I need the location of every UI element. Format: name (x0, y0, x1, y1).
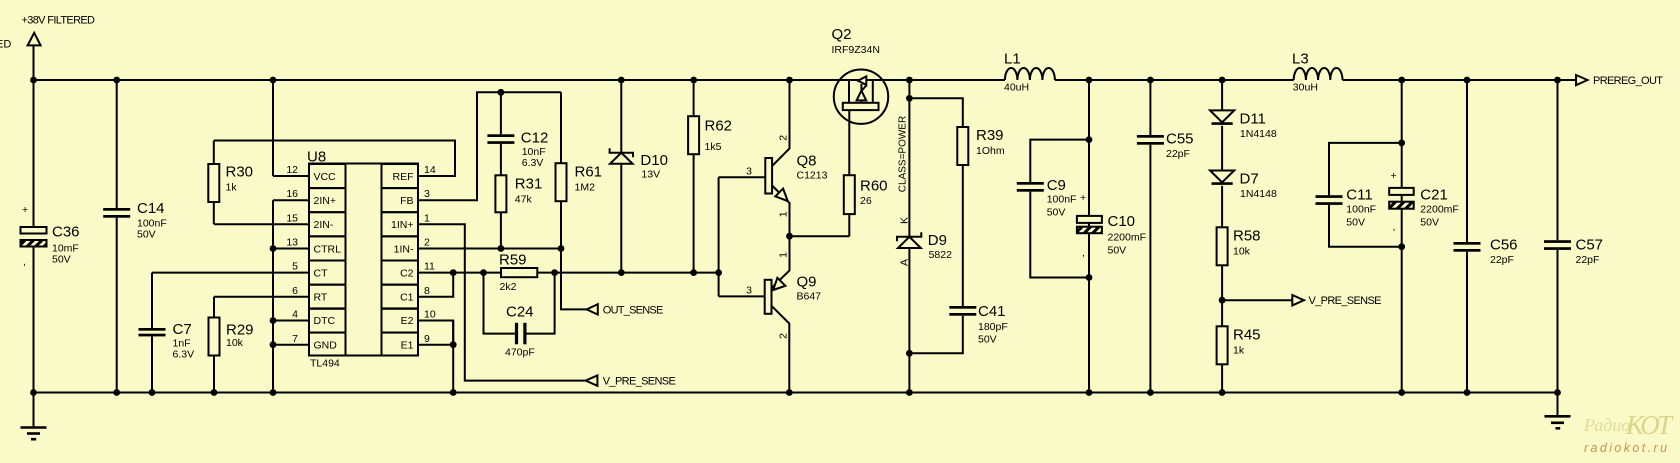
svg-text:C12: C12 (521, 130, 549, 147)
diode D11 1N4148 (1210, 80, 1277, 171)
svg-text:12: 12 (286, 164, 298, 176)
wire driver base column (718, 177, 720, 296)
resistor R58 (1217, 227, 1261, 326)
svg-text:CLASS=POWER: CLASS=POWER (898, 116, 909, 192)
svg-text:100nF: 100nF (1346, 204, 1376, 216)
svg-text:4: 4 (292, 309, 298, 321)
wire divider tap to arrow (1222, 299, 1292, 301)
junction C24 right on C2 row (551, 269, 558, 276)
svg-text:L3: L3 (1292, 51, 1309, 68)
svg-text:6.3V: 6.3V (522, 157, 544, 169)
svg-text:R39: R39 (976, 127, 1004, 144)
diode D9 5822 (897, 217, 952, 266)
node V_PRE_SENSE arrow (right) (1292, 295, 1304, 305)
svg-text:C21: C21 (1420, 187, 1448, 204)
svg-text:VCC: VCC (314, 171, 337, 183)
svg-text:2IN+: 2IN+ (314, 195, 336, 207)
svg-text:C55: C55 (1166, 131, 1194, 148)
capacitor C56 (1454, 80, 1518, 393)
svg-text:D9: D9 (928, 232, 947, 249)
capacitor C21 (1389, 170, 1459, 233)
svg-text:C41: C41 (978, 303, 1006, 320)
svg-text:1k5: 1k5 (705, 141, 722, 153)
svg-text:22pF: 22pF (1490, 254, 1514, 266)
transistor Q8 C1213 (719, 80, 828, 236)
svg-text:13V: 13V (641, 169, 660, 181)
svg-text:50V: 50V (1420, 217, 1439, 229)
svg-text:1k: 1k (226, 182, 238, 194)
svg-text:+: + (22, 204, 28, 216)
junction C1/C2 tie (450, 269, 457, 276)
svg-text:GND: GND (314, 339, 338, 351)
svg-text:10k: 10k (226, 337, 244, 349)
resistor R45 (1217, 326, 1261, 392)
svg-text:10k: 10k (1233, 246, 1251, 258)
svg-text:2k2: 2k2 (500, 281, 517, 293)
wire U8 ground column (2IN+ CTRL DTC GND) (272, 200, 274, 392)
junction C11 top tap (1398, 140, 1405, 147)
svg-text:A: A (899, 259, 911, 266)
wire REF to R30 top (214, 141, 455, 177)
svg-text:5: 5 (292, 261, 298, 273)
capacitor C9 (1017, 140, 1089, 278)
svg-text:Q2: Q2 (832, 26, 852, 43)
svg-text:,: , (1393, 221, 1396, 233)
wire FB riser (418, 92, 561, 200)
node PREREG_OUT arrow (1576, 75, 1588, 85)
svg-text:C36: C36 (52, 224, 80, 241)
svg-text:C56: C56 (1490, 237, 1518, 254)
svg-text:+: + (1080, 192, 1086, 204)
junction V_PRE_SENSE divider tap (1219, 297, 1226, 304)
svg-text:K: K (899, 217, 911, 224)
svg-text:Q8: Q8 (797, 153, 817, 170)
wire C11/C21 branch (1401, 80, 1403, 393)
capacitor C36 (21, 80, 80, 393)
svg-text:50V: 50V (137, 229, 156, 241)
capacitor C7 (139, 273, 195, 393)
svg-text:V_PRE_SENSE: V_PRE_SENSE (1309, 295, 1382, 307)
svg-text:CTRL: CTRL (314, 243, 342, 255)
svg-text:1N4148: 1N4148 (1240, 188, 1277, 200)
svg-text:C7: C7 (173, 321, 192, 338)
svg-text:22pF: 22pF (1576, 254, 1600, 266)
svg-text:D10: D10 (640, 152, 668, 169)
svg-text:R30: R30 (226, 164, 254, 181)
svg-text:RT: RT (314, 292, 328, 304)
wire top +38V bus (34, 79, 1577, 81)
wire bottom ground bus (34, 392, 1558, 394)
wire drain column / D9 branch (908, 80, 910, 393)
svg-text:C1213: C1213 (797, 170, 828, 182)
resistor R29 (209, 297, 254, 393)
svg-text:C24: C24 (506, 304, 534, 321)
U8 left pin names (314, 171, 342, 352)
svg-text:R60: R60 (860, 178, 888, 195)
junction CTRL/DTC/GND on ground column (270, 245, 277, 348)
junction R31 on 1IN- (498, 245, 505, 252)
svg-text:7: 7 (292, 333, 298, 345)
svg-text:1k: 1k (1233, 345, 1245, 357)
svg-text:100nF: 100nF (1047, 194, 1077, 206)
svg-text:2200mF: 2200mF (1420, 204, 1459, 216)
svg-text:E2: E2 (401, 315, 414, 327)
svg-text:R61: R61 (575, 164, 603, 181)
svg-text:FB: FB (400, 195, 413, 207)
svg-text:,: , (1082, 247, 1085, 259)
svg-text:1M2: 1M2 (575, 182, 596, 194)
svg-text:radiokot.ru: radiokot.ru (1584, 441, 1667, 455)
U8 left pin numbers 12 16 15 13 5 6 4 7 (286, 164, 298, 345)
transistor Q2 IRF9Z34N (832, 26, 889, 124)
junction C12 top (498, 89, 505, 96)
svg-text:47k: 47k (515, 194, 533, 206)
resistor R60 (844, 110, 888, 236)
svg-text:1: 1 (778, 211, 790, 217)
svg-text:2: 2 (777, 333, 789, 339)
svg-text:DTC: DTC (314, 315, 336, 327)
svg-text:Радио: Радио (1583, 415, 1630, 435)
ground right (1545, 393, 1571, 429)
svg-text:15: 15 (286, 212, 298, 224)
svg-text:11: 11 (424, 261, 435, 273)
svg-text:1: 1 (778, 252, 790, 258)
svg-text:B647: B647 (797, 291, 822, 303)
junction base column on C2 row (715, 269, 722, 276)
junction R62 on C2 row (690, 269, 697, 276)
svg-text:1Ohm: 1Ohm (976, 145, 1005, 157)
wire 1IN- row (418, 248, 561, 250)
svg-text:D11: D11 (1240, 111, 1266, 128)
svg-text:30uH: 30uH (1293, 82, 1318, 94)
svg-text:R62: R62 (705, 118, 733, 135)
capacitor C14 (103, 80, 167, 393)
svg-text:ED: ED (0, 39, 11, 51)
capacitor C41 (909, 303, 1007, 353)
resistor R30 (208, 141, 253, 225)
U8 right pin numbers 14 3 1 2 11 8 10 9 (424, 164, 436, 345)
capacitor C55 (1137, 80, 1194, 393)
svg-text:CT: CT (314, 267, 329, 279)
svg-text:TL494: TL494 (310, 358, 340, 370)
svg-text:50V: 50V (1108, 245, 1127, 257)
svg-text:U8: U8 (307, 149, 326, 166)
svg-text:R59: R59 (499, 252, 527, 269)
svg-text:PREREG_OUT: PREREG_OUT (1593, 75, 1663, 87)
svg-text:3: 3 (746, 166, 752, 178)
wire emitter node to R60 (790, 235, 850, 237)
svg-text:14: 14 (424, 164, 436, 176)
inductor L3 (1292, 51, 1342, 94)
svg-text:180pF: 180pF (978, 321, 1008, 333)
capacitor C24 loop (484, 273, 555, 359)
svg-text:2200mF: 2200mF (1108, 232, 1147, 244)
svg-text:REF: REF (393, 171, 414, 183)
resistor R59 (499, 252, 537, 294)
resistor R39 (909, 98, 1004, 306)
svg-text:C1: C1 (400, 292, 414, 304)
junction C9 bottom tap (1086, 274, 1093, 281)
wire VCC feed from bus (272, 80, 274, 176)
svg-text:D7: D7 (1240, 171, 1259, 188)
svg-text:10: 10 (424, 309, 436, 321)
inductor L1 (1004, 51, 1055, 94)
wire E2 tie (418, 321, 453, 345)
svg-text:C11: C11 (1346, 187, 1372, 204)
svg-text:C57: C57 (1576, 237, 1604, 254)
svg-text:50V: 50V (978, 334, 997, 346)
node V_PRE_SENSE arrow (left) (586, 375, 598, 385)
svg-text:3: 3 (746, 285, 752, 297)
svg-text:OUT_SENSE: OUT_SENSE (603, 304, 664, 316)
zener D10 (610, 80, 668, 273)
junction snubber top tap (906, 95, 913, 102)
svg-text:1N4148: 1N4148 (1240, 128, 1277, 140)
svg-text:IRF9Z34N: IRF9Z34N (832, 44, 880, 56)
wire C1 tie to C2 (418, 273, 453, 297)
svg-text:40uH: 40uH (1004, 82, 1029, 94)
svg-text:C2: C2 (400, 267, 414, 279)
capacitor C57 (1544, 80, 1603, 393)
capacitor C11 (1316, 143, 1402, 247)
U8 left pin wires (152, 176, 309, 345)
capacitor C10 (1077, 213, 1146, 259)
svg-text:1: 1 (424, 212, 430, 224)
svg-text:16: 16 (286, 188, 298, 200)
wire E1 to ground (418, 321, 453, 393)
svg-text:22pF: 22pF (1166, 148, 1190, 160)
svg-text:L1: L1 (1004, 51, 1021, 68)
capacitor C12 (487, 92, 548, 175)
svg-text:26: 26 (860, 195, 872, 207)
svg-text:8: 8 (424, 285, 430, 297)
svg-text:C14: C14 (137, 200, 165, 217)
svg-text:R45: R45 (1233, 327, 1261, 344)
svg-text:R29: R29 (226, 322, 254, 339)
svg-text:6.3V: 6.3V (173, 349, 195, 361)
node +38V FILTERED arrow (28, 33, 41, 46)
svg-text:C9: C9 (1047, 177, 1066, 194)
svg-text:470pF: 470pF (505, 347, 535, 359)
junctions top bus (30, 77, 1561, 84)
junction snubber bottom tap (906, 350, 913, 357)
svg-text:6: 6 (292, 285, 298, 297)
wire OUT_SENSE stub (561, 249, 587, 310)
svg-text:3: 3 (424, 188, 430, 200)
svg-text:E1: E1 (401, 339, 414, 351)
svg-text:1IN+: 1IN+ (391, 219, 413, 231)
junction C9 top tap (1086, 136, 1093, 143)
junction C11 bottom tap (1398, 243, 1405, 250)
svg-text:5822: 5822 (929, 249, 953, 261)
svg-text:+: + (1391, 170, 1397, 182)
svg-text:R58: R58 (1233, 228, 1261, 245)
svg-text:КОТ: КОТ (1625, 410, 1674, 440)
svg-text:2: 2 (424, 237, 430, 249)
svg-text:50V: 50V (52, 254, 71, 266)
resistor R61 (556, 92, 603, 248)
ground left (21, 393, 47, 440)
svg-text:C10: C10 (1108, 213, 1136, 230)
junction C24 left on C2 row (480, 269, 487, 276)
junction E1/E2 tie (450, 341, 457, 348)
junctions bottom bus (30, 389, 1561, 396)
wire C2 output row to driver bases (418, 272, 719, 274)
svg-text:50V: 50V (1346, 217, 1365, 229)
svg-text:2: 2 (778, 135, 790, 141)
resistor R62 (688, 80, 732, 273)
svg-text:1IN-: 1IN- (394, 243, 414, 255)
node OUT_SENSE arrow (587, 304, 598, 314)
svg-text:R31: R31 (515, 176, 543, 193)
svg-text:2IN-: 2IN- (314, 219, 334, 231)
transistor Q9 B647 (719, 236, 822, 392)
svg-text:50V: 50V (1047, 207, 1066, 219)
svg-text:V_PRE_SENSE: V_PRE_SENSE (603, 376, 676, 388)
wire 1IN+ to V_PRE_SENSE (418, 224, 586, 380)
wire C9/C10 branch (1088, 80, 1090, 393)
IC U8 TL494 body (309, 164, 418, 356)
junction emitter node (786, 233, 793, 240)
U8 right pin names (391, 171, 414, 352)
diode D7 1N4148 (1210, 171, 1277, 228)
svg-text:9: 9 (424, 333, 430, 345)
node +38V input lead (33, 45, 35, 80)
svg-text:13: 13 (286, 237, 298, 249)
svg-text:,: , (23, 256, 26, 268)
svg-text:+38V FILTERED: +38V FILTERED (22, 15, 96, 27)
junction D10 on C2 row (618, 269, 625, 276)
junction R61 bottom / OUT_SENSE tap (558, 245, 565, 252)
resistor R31 (495, 175, 542, 248)
svg-text:Q9: Q9 (797, 274, 817, 291)
